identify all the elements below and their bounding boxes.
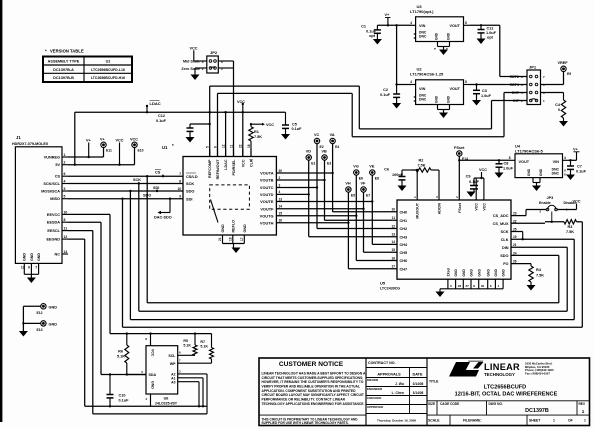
- connector J1 HDR2X7-079-MOLEX: [12, 135, 62, 263]
- svg-text:3: 3: [279, 183, 281, 187]
- wire SCK: [68, 182, 183, 184]
- svg-text:14: 14: [391, 240, 395, 244]
- customer notice text: [259, 361, 366, 425]
- svg-text:CH2: CH2: [400, 227, 408, 231]
- resistor R1 7.5K: [249, 124, 262, 156]
- wire CS_MUX line: [511, 222, 564, 224]
- svg-text:E13: E13: [37, 328, 43, 332]
- svg-text:VCC: VCC: [475, 203, 479, 211]
- svg-text:R1: R1: [254, 130, 259, 134]
- svg-text:CS/LD: CS/LD: [186, 174, 198, 179]
- wire JP2 pin4: [194, 60, 207, 62]
- svg-text:4: 4: [410, 80, 412, 84]
- svg-text:E12: E12: [37, 311, 43, 315]
- svg-text:C3: C3: [482, 89, 487, 93]
- header JP1: [527, 65, 541, 105]
- wire U2 VOUT REF1: [470, 83, 527, 85]
- U4 pins: [509, 156, 568, 186]
- svg-text:R5: R5: [183, 339, 188, 343]
- J1 right pins and numbers: [41, 153, 68, 257]
- wire VOUTF: [276, 208, 363, 210]
- svg-text:GND: GND: [502, 269, 506, 277]
- svg-text:GND: GND: [447, 95, 451, 103]
- version table: [43, 57, 132, 83]
- svg-text:VIN: VIN: [553, 160, 560, 164]
- svg-text:VB: VB: [322, 149, 328, 153]
- wire VOUTE: [276, 201, 372, 203]
- wire FO to R4: [511, 264, 531, 266]
- svg-text:11: 11: [392, 216, 396, 220]
- svg-text:CH4: CH4: [400, 243, 408, 247]
- wire JP2 to PD/RSEL: [218, 61, 233, 157]
- turret E12: [37, 304, 58, 315]
- wire JP2 pin2 gnd: [195, 68, 207, 75]
- svg-text:9: 9: [179, 195, 181, 199]
- svg-text:VC: VC: [314, 133, 320, 137]
- svg-text:ASSEMBLY TYPE: ASSEMBLY TYPE: [48, 60, 80, 64]
- svg-text:E1: E1: [311, 161, 315, 165]
- svg-text:GND: GND: [486, 269, 490, 277]
- svg-text:GND: GND: [435, 32, 439, 40]
- svg-text:DC1397B: DC1397B: [525, 408, 549, 414]
- svg-text:3: 3: [64, 187, 66, 191]
- wire JP1 pin5 to VREF: [541, 71, 564, 84]
- svg-text:VCC: VCC: [237, 100, 245, 104]
- svg-text:HDR2X7-079-MOLEX: HDR2X7-079-MOLEX: [12, 142, 49, 146]
- svg-text:DC1397B-A: DC1397B-A: [53, 68, 74, 72]
- wire JP1 pin3 to C4: [541, 93, 564, 101]
- svg-text:DAC-SDO: DAC-SDO: [154, 216, 172, 220]
- IC U5 LTC2439 body: [380, 200, 511, 290]
- turret E8 VE: [369, 164, 379, 180]
- svg-text:CLR: CLR: [250, 159, 254, 167]
- wire DIN line: [511, 246, 567, 248]
- net flag CS: [155, 169, 163, 176]
- svg-text:DRAWN: DRAWN: [367, 378, 378, 382]
- svg-text:CHECKED: CHECKED: [367, 396, 381, 400]
- wire VCC pin U1: [242, 112, 244, 156]
- turret E10: [130, 138, 144, 153]
- wire VCC rail (y=112): [75, 111, 286, 113]
- wire VE lane: [371, 175, 397, 244]
- ground C3: [472, 100, 481, 106]
- svg-text:CS: CS: [155, 170, 161, 174]
- net flag VCC (U5): [479, 168, 487, 178]
- svg-text:C11: C11: [487, 26, 494, 30]
- wire 5V to E10: [68, 147, 135, 164]
- svg-text:0: 0: [558, 108, 560, 112]
- svg-text:C9: C9: [466, 174, 471, 178]
- wire SCK-CLK tie: [511, 232, 524, 241]
- net flag SDI: [153, 186, 159, 191]
- U2 pins: [410, 80, 470, 113]
- capacitor C1: [361, 25, 381, 40]
- svg-text:APPROVALS: APPROVALS: [377, 372, 401, 376]
- svg-text:CH3: CH3: [400, 235, 408, 239]
- wire REFIN Z to JP1 EXT: [218, 93, 528, 157]
- wire SDI: [68, 198, 183, 200]
- svg-text:GND: GND: [454, 269, 458, 277]
- svg-text:5: 5: [64, 195, 66, 199]
- svg-text:2: 2: [64, 161, 66, 165]
- wire EEVCC: [68, 214, 110, 333]
- ground C9: [467, 192, 476, 198]
- svg-text:1: 1: [584, 419, 586, 423]
- wire EESCL: [68, 231, 207, 414]
- svg-text:SDO: SDO: [186, 189, 194, 194]
- svg-text:VH: VH: [345, 181, 351, 185]
- svg-text:GND: GND: [527, 168, 531, 176]
- wire VOUTG: [276, 215, 356, 217]
- svg-text:JP2: JP2: [210, 50, 218, 55]
- svg-text:VCC: VCC: [241, 159, 245, 167]
- wire LDAC pin U1: [224, 111, 226, 157]
- svg-text:4: 4: [202, 60, 204, 64]
- svg-text:MISO: MISO: [50, 197, 60, 201]
- svg-text:TECHNOLOGY APPLICATIONS ENGINE: TECHNOLOGY APPLICATIONS ENGINEERING FOR …: [262, 402, 365, 406]
- svg-text:VCC: VCC: [482, 203, 486, 211]
- turret E2 VC: [314, 133, 324, 149]
- svg-text:GND: GND: [151, 381, 155, 389]
- svg-text:E5: E5: [351, 193, 355, 197]
- capacitor C6: [384, 168, 405, 186]
- svg-text:17: 17: [391, 265, 395, 269]
- svg-text:JP1: JP1: [529, 65, 537, 70]
- svg-text:E3: E3: [327, 161, 331, 165]
- svg-text:C7: C7: [577, 165, 582, 169]
- svg-text:LTC2656BCUFD-L16: LTC2656BCUFD-L16: [91, 68, 125, 72]
- svg-text:6: 6: [64, 172, 66, 176]
- turret E3 VB: [322, 149, 332, 165]
- wire VH lane: [347, 192, 397, 269]
- net flag SCK: [133, 178, 141, 183]
- wire U2 VIN: [397, 84, 412, 86]
- svg-text:VERSION TABLE: VERSION TABLE: [50, 49, 84, 54]
- svg-text:R7: R7: [200, 340, 205, 344]
- net arrow DAC-SDO: [154, 199, 172, 220]
- turret E14 FSset: [454, 146, 468, 161]
- wire VD lane: [308, 160, 398, 237]
- svg-text:LTC2656BCUFD-H16: LTC2656BCUFD-H16: [91, 76, 125, 80]
- svg-text:opt: opt: [487, 36, 494, 40]
- svg-text:GND: GND: [37, 253, 41, 261]
- svg-text:SCK: SCK: [133, 178, 141, 182]
- capacitor C7: [567, 160, 587, 174]
- svg-text:15: 15: [391, 248, 395, 252]
- svg-text:E6: E6: [359, 176, 363, 180]
- resistor R2 7.5K: [411, 159, 439, 173]
- svg-text:PD/RSEL: PD/RSEL: [232, 159, 236, 176]
- svg-text:E2: E2: [320, 145, 324, 149]
- svg-text:A0: A0: [171, 380, 175, 384]
- svg-text:SUPPLIED FOR USE WITH LINEAR T: SUPPLIED FOR USE WITH LINEAR TECHNOLOGY …: [262, 421, 349, 425]
- svg-text:VOUTG: VOUTG: [260, 213, 274, 218]
- ground U5: [436, 292, 445, 298]
- svg-text:11: 11: [229, 144, 233, 148]
- svg-text:100pF: 100pF: [392, 173, 404, 177]
- header JP3: [539, 196, 576, 214]
- JP1 pin labels: [510, 75, 545, 103]
- svg-text:5V: 5V: [55, 163, 60, 167]
- wire CS: [68, 175, 183, 177]
- svg-text:4: 4: [410, 21, 412, 25]
- wire U6 A-pin drops: [151, 374, 208, 414]
- svg-text:4: 4: [564, 156, 566, 160]
- svg-text:DATE: DATE: [412, 372, 423, 376]
- svg-text:GND: GND: [49, 322, 58, 326]
- svg-text:GND: GND: [23, 253, 27, 261]
- svg-text:9: 9: [28, 266, 30, 270]
- net flag VCC (J1): [116, 139, 124, 166]
- svg-text:10: 10: [64, 210, 68, 214]
- svg-text:E4: E4: [335, 145, 339, 149]
- svg-text:WP: WP: [170, 362, 176, 366]
- svg-text:VG: VG: [353, 164, 359, 168]
- turret E6 VG: [353, 164, 363, 180]
- svg-text:Fax: (408)434-0507: Fax: (408)434-0507: [525, 371, 550, 375]
- svg-text:LDAC: LDAC: [150, 101, 161, 106]
- svg-text:VOUTD: VOUTD: [260, 192, 274, 197]
- svg-text:EESDA: EESDA: [47, 221, 60, 225]
- svg-text:GND: GND: [435, 95, 439, 103]
- wire MUXOUT-C6: [402, 169, 418, 171]
- svg-text:10: 10: [177, 187, 181, 191]
- svg-text:8: 8: [465, 80, 467, 84]
- svg-text:C2: C2: [383, 88, 388, 92]
- svg-text:2Xsel: 2Xsel: [447, 268, 451, 277]
- ground C4: [559, 121, 568, 127]
- svg-text:VOUT: VOUT: [449, 24, 460, 28]
- svg-text:CH7: CH7: [400, 267, 408, 271]
- svg-text:L. Chen: L. Chen: [392, 391, 404, 395]
- svg-text:VCC: VCC: [573, 199, 581, 203]
- svg-text:3: 3: [221, 60, 223, 64]
- svg-text:VOUTA: VOUTA: [260, 171, 274, 176]
- svg-text:VOUTC: VOUTC: [260, 185, 274, 190]
- svg-text:U6: U6: [164, 397, 169, 401]
- wire VB lane: [323, 160, 397, 220]
- svg-text:VCC: VCC: [116, 139, 124, 143]
- svg-text:FSset: FSset: [458, 202, 462, 213]
- ground C11: [477, 39, 486, 45]
- svg-text:0.1uF: 0.1uF: [469, 180, 480, 184]
- svg-text:8: 8: [509, 156, 511, 160]
- svg-text:27: 27: [466, 284, 470, 288]
- svg-text:GND: GND: [470, 269, 474, 277]
- svg-text:opt: opt: [369, 34, 376, 38]
- svg-text:OF: OF: [568, 419, 573, 423]
- capacitor C11: [478, 25, 497, 39]
- svg-text:SHEET: SHEET: [529, 419, 541, 423]
- bus wire MISO lane: [123, 199, 583, 328]
- wire V+ down to U2: [395, 25, 397, 85]
- U1 bottom pins: [218, 220, 247, 248]
- svg-text:SCK/SCL: SCK/SCL: [43, 182, 60, 186]
- wire SDA net: [109, 373, 146, 375]
- svg-text:SDI: SDI: [153, 186, 159, 190]
- svg-text:V+: V+: [100, 138, 106, 142]
- svg-text:5: 5: [206, 146, 210, 148]
- U5 bottom GND pins: [440, 268, 506, 292]
- svg-text:3/14/08: 3/14/08: [413, 382, 424, 386]
- net flag VCC (JP3): [573, 199, 581, 203]
- sheet row: [428, 415, 586, 425]
- svg-text:DNC: DNC: [552, 172, 560, 176]
- svg-text:TITLE: TITLE: [429, 380, 439, 384]
- ground C7: [566, 175, 575, 181]
- net flag LDAC: [146, 101, 161, 113]
- U1 right pin labels: [260, 169, 283, 226]
- svg-text:CUSTOMER NOTICE: CUSTOMER NOTICE: [279, 361, 344, 368]
- svg-text:GND: GND: [462, 269, 466, 277]
- wire VC lane: [316, 144, 397, 229]
- svg-text:VCC: VCC: [190, 46, 198, 50]
- svg-text:20: 20: [279, 169, 283, 173]
- svg-text:C12: C12: [158, 114, 165, 118]
- svg-text:C1: C1: [361, 25, 366, 29]
- wire VOUTD: [276, 193, 308, 195]
- IC U3 LT1790(opt) body: [410, 4, 464, 42]
- svg-text:11: 11: [64, 227, 68, 231]
- title text: [429, 380, 558, 398]
- svg-text:REFIN/OUT: REFIN/OUT: [216, 159, 220, 180]
- svg-text:10: 10: [391, 208, 395, 212]
- net flag VCC (R1): [250, 123, 274, 127]
- svg-text:22: 22: [239, 144, 243, 148]
- svg-text:REFLO: REFLO: [231, 220, 235, 233]
- wire VA lane: [331, 144, 397, 212]
- svg-text:8: 8: [179, 179, 181, 183]
- svg-text:24LC025-I/ST: 24LC025-I/ST: [155, 401, 178, 405]
- svg-text:GND: GND: [539, 168, 543, 176]
- svg-text:x: x: [414, 99, 416, 103]
- IC U2 LT1790ACS6-1.25 body: [410, 67, 464, 105]
- svg-text:13: 13: [391, 233, 395, 237]
- svg-text:GND: GND: [221, 224, 225, 233]
- svg-text:32: 32: [481, 284, 485, 288]
- U5 top pin labels: [413, 170, 486, 219]
- wire U5 VCC tie: [476, 177, 484, 179]
- svg-text:E10: E10: [138, 149, 144, 153]
- svg-text:12: 12: [391, 224, 395, 228]
- svg-text:VCC: VCC: [130, 138, 138, 142]
- svg-text:VOUT: VOUT: [449, 87, 460, 91]
- ground C8: [495, 173, 504, 179]
- svg-text:5.1K: 5.1K: [117, 355, 125, 359]
- svg-text:V+: V+: [573, 148, 579, 152]
- svg-text:0.1uF: 0.1uF: [156, 119, 167, 123]
- wire V+ to U3 VIN: [377, 24, 411, 26]
- svg-text:Thursday, October 16, 2008: Thursday, October 16, 2008: [377, 419, 416, 423]
- svg-text:7.5K: 7.5K: [536, 274, 544, 278]
- svg-text:DNC: DNC: [419, 35, 427, 39]
- svg-text:C8: C8: [504, 162, 509, 166]
- wire SDO: [68, 190, 183, 192]
- svg-text:E7: E7: [366, 193, 370, 197]
- svg-text:C6: C6: [384, 168, 389, 172]
- IC U1 LTC2656 body: [162, 143, 276, 235]
- svg-text:0.1uF: 0.1uF: [576, 169, 587, 173]
- ground C5: [281, 134, 290, 140]
- svg-text:LINEAR: LINEAR: [484, 362, 520, 372]
- wire FSset net: [458, 156, 510, 200]
- capacitor C12: [156, 114, 211, 137]
- U5 right pin labels: [493, 212, 517, 267]
- svg-text:VF: VF: [361, 181, 367, 185]
- svg-text:CH5: CH5: [400, 251, 408, 255]
- turret E4 VA: [330, 133, 340, 149]
- svg-text:APPROVED: APPROVED: [367, 405, 383, 409]
- wire VOUTA: [276, 172, 332, 174]
- U1 exposed pad (dashed): [210, 185, 250, 223]
- svg-text:DIN: DIN: [502, 246, 509, 250]
- U5 CH pin labels: [391, 208, 408, 272]
- wire JP3 disable to VCC: [557, 204, 576, 210]
- ground C1: [373, 39, 382, 45]
- svg-text:INT: INT: [513, 99, 520, 103]
- svg-text:DNC: DNC: [419, 98, 427, 102]
- svg-text:VIN: VIN: [419, 24, 426, 28]
- svg-text:16: 16: [279, 219, 283, 223]
- svg-text:19: 19: [228, 237, 232, 241]
- svg-text:LTC2656BCUFD: LTC2656BCUFD: [484, 385, 526, 391]
- svg-text:Enable: Enable: [539, 201, 551, 205]
- svg-text:6: 6: [213, 146, 217, 148]
- svg-text:FSset: FSset: [454, 146, 465, 150]
- svg-text:MUXOUT: MUXOUT: [416, 202, 420, 218]
- svg-text:14: 14: [279, 205, 283, 209]
- svg-text:SDA: SDA: [149, 373, 157, 377]
- svg-text:7.5K: 7.5K: [418, 164, 426, 168]
- ground U2: [439, 113, 448, 119]
- svg-text:FO: FO: [503, 262, 508, 266]
- svg-text:3/14/08: 3/14/08: [413, 391, 424, 395]
- svg-text:VCC: VCC: [151, 349, 155, 357]
- svg-text:x: x: [564, 172, 566, 176]
- svg-text:CS_ADC: CS_ADC: [493, 214, 509, 218]
- svg-text:C10: C10: [119, 394, 126, 398]
- svg-text:SCL: SCL: [168, 354, 176, 358]
- svg-text:1.0uF: 1.0uF: [486, 31, 497, 35]
- J1 bottom GND pins: [21, 253, 41, 278]
- svg-text:REV: REV: [579, 402, 586, 406]
- U3 pins: [410, 21, 470, 50]
- U6 pin labels: [141, 334, 211, 407]
- svg-text:13: 13: [21, 266, 25, 270]
- svg-text:*: *: [172, 143, 174, 148]
- resistor R7 5.1K: [200, 334, 213, 364]
- svg-text:SCK: SCK: [186, 181, 194, 186]
- svg-text:CH6: CH6: [400, 259, 408, 263]
- svg-text:7: 7: [179, 172, 181, 176]
- svg-text:SDO: SDO: [500, 254, 508, 258]
- wire VUNREG to E11: [68, 147, 104, 157]
- resistor R5 5.1K: [183, 334, 197, 356]
- wire SDO line: [511, 254, 559, 256]
- svg-text:18: 18: [247, 144, 251, 148]
- svg-text:1.0uF: 1.0uF: [503, 166, 514, 170]
- wire VOUTB: [276, 179, 324, 181]
- svg-text:V+: V+: [385, 13, 391, 17]
- svg-text:21: 21: [218, 237, 222, 241]
- svg-text:0.1uF: 0.1uF: [292, 127, 303, 131]
- svg-text:LT1790(opt.): LT1790(opt.): [410, 9, 434, 14]
- svg-text:GND: GND: [243, 224, 247, 233]
- IC U6 24LC025 body: [146, 346, 178, 406]
- wire VF lane: [362, 192, 397, 252]
- JP2 labels: [181, 60, 200, 72]
- ground C6: [398, 186, 407, 192]
